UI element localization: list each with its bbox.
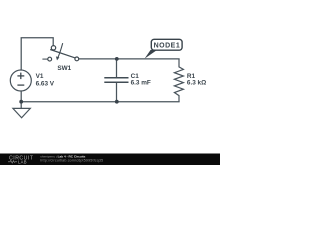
svg-text:6.63 V: 6.63 V [36, 80, 55, 87]
svg-text:NODE1: NODE1 [154, 42, 181, 49]
svg-text:6.3 mF: 6.3 mF [131, 79, 151, 86]
svg-text:V1: V1 [36, 73, 44, 80]
svg-text:6.3 kΩ: 6.3 kΩ [187, 79, 206, 86]
svg-text:SW1: SW1 [57, 65, 71, 72]
svg-text:LAB: LAB [18, 159, 27, 164]
svg-text:http://circuitlab.com/c6pt5995: http://circuitlab.com/c6pt5995tfcq35 [40, 158, 103, 162]
